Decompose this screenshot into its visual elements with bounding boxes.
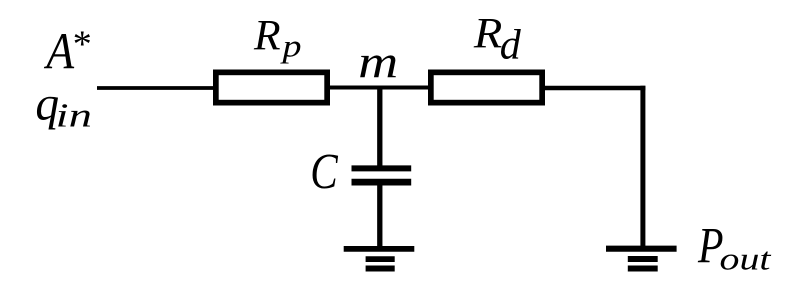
svg-text:p: p <box>280 29 301 64</box>
svg-text:out: out <box>720 242 773 277</box>
svg-text:C: C <box>310 145 338 201</box>
svg-text:in: in <box>56 97 92 135</box>
svg-text:d: d <box>500 22 522 68</box>
svg-text:R: R <box>253 12 281 60</box>
svg-text:*: * <box>71 23 91 65</box>
svg-text:R: R <box>473 9 502 57</box>
svg-text:m: m <box>358 36 398 88</box>
